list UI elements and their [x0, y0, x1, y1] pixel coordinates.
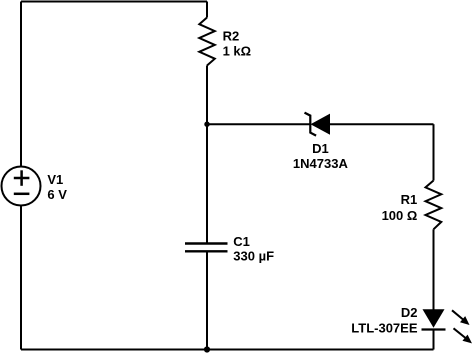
svg-text:C1: C1: [233, 234, 250, 249]
resistor R2: [199, 18, 215, 66]
svg-text:LTL-307EE: LTL-307EE: [351, 320, 418, 335]
svg-text:1N4733A: 1N4733A: [293, 156, 349, 171]
svg-text:1 kΩ: 1 kΩ: [223, 44, 252, 59]
wire bottom horizontal: [21, 349, 434, 351]
LED D2 arrowhead 2: [462, 335, 472, 344]
LED D2 light arrow 2: [454, 328, 467, 338]
LED D2 triangle: [423, 309, 445, 328]
source V1: [2, 167, 41, 206]
svg-text:R2: R2: [223, 29, 240, 44]
wire middle vertical (R2 to C1): [206, 66, 208, 244]
svg-text:330 µF: 330 µF: [233, 249, 274, 264]
svg-text:6 V: 6 V: [47, 187, 67, 202]
node junction (bottom): [204, 346, 210, 352]
node junction (D1 branch): [204, 122, 209, 127]
wire D1 branch right: [330, 123, 434, 125]
LED D2 light arrow 1: [452, 310, 464, 320]
capacitor C1: [185, 244, 228, 252]
diode D1 zener cathode: [305, 113, 317, 136]
wire right vertical (D2 to bottom): [433, 329, 435, 349]
wire left vertical upper: [20, 2, 22, 167]
svg-text:100 Ω: 100 Ω: [382, 208, 418, 223]
diode D2 cathode bar: [422, 328, 446, 330]
svg-text:V1: V1: [47, 172, 63, 187]
wire right vertical (R1 to D2): [433, 229, 435, 309]
wire right vertical (D1 to R1): [433, 124, 435, 180]
svg-text:D2: D2: [401, 305, 418, 320]
resistor R1: [426, 181, 442, 230]
wire middle vertical upper (top to R2): [206, 2, 208, 18]
wire D1 branch left: [207, 123, 310, 125]
svg-text:D1: D1: [312, 141, 329, 156]
wire middle vertical (C1 to bottom): [206, 251, 208, 349]
LED D2 arrowhead 1: [460, 316, 470, 325]
wire top horizontal: [21, 1, 207, 3]
wire left vertical lower: [20, 206, 22, 350]
svg-text:R1: R1: [401, 192, 418, 207]
diode D1 triangle: [311, 114, 331, 135]
